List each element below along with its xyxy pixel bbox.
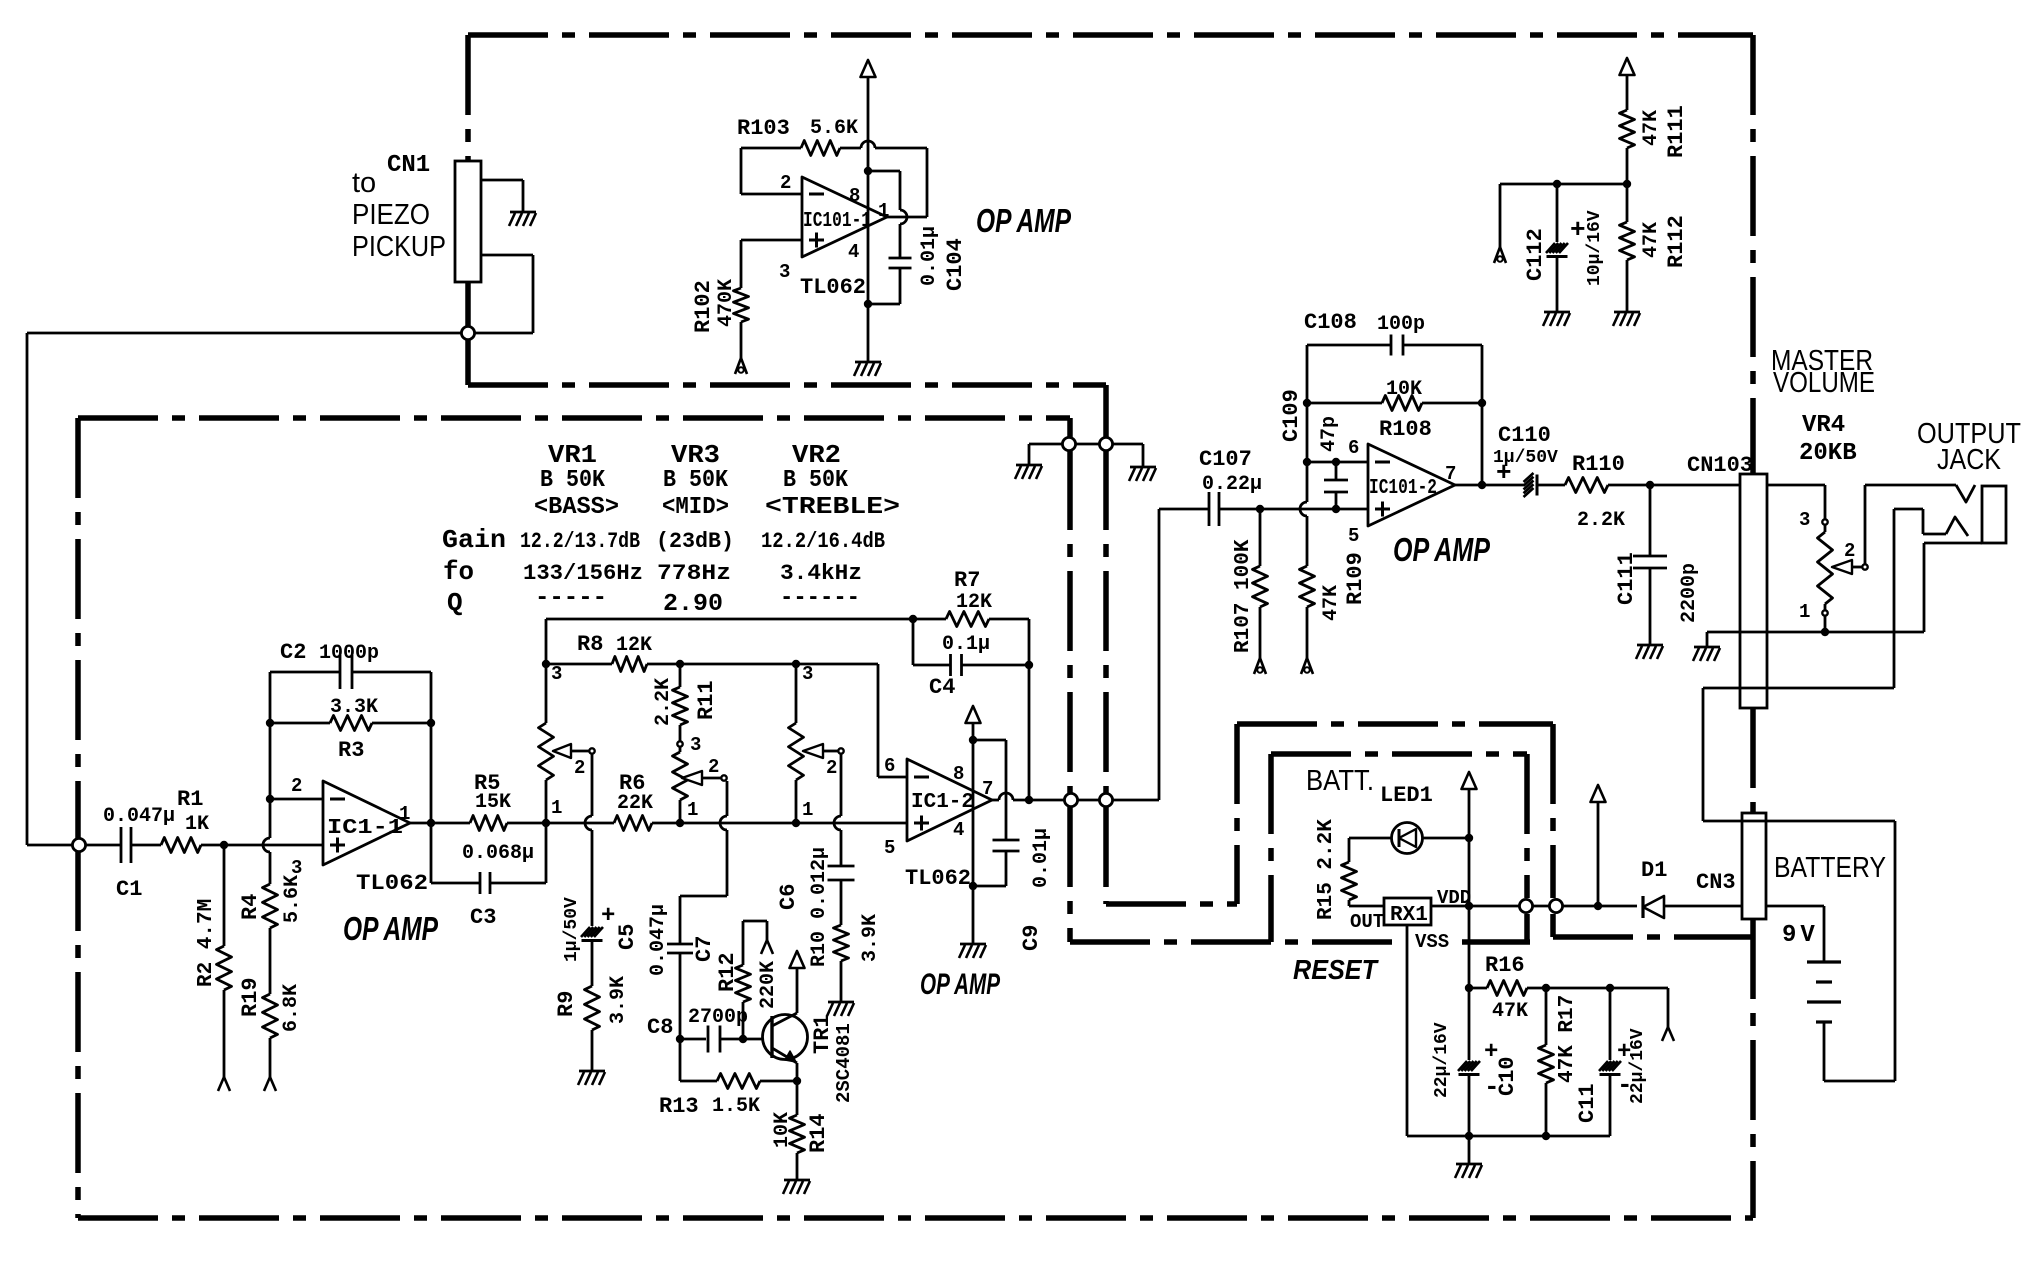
capacitor C104 branch (868, 170, 900, 173)
svg-text:1: 1 (551, 797, 562, 819)
capacitor C5 polarized (581, 927, 590, 937)
wire LED right (1422, 837, 1469, 840)
svg-text:OP AMP: OP AMP (1393, 531, 1491, 568)
svg-text:1000p: 1000p (319, 642, 379, 665)
svg-text:R7: R7 (954, 568, 980, 593)
resistor R9 (585, 986, 600, 1030)
svg-text:C10: C10 (1495, 1056, 1520, 1096)
resistor R11 (679, 664, 682, 687)
capacitor C112 polarized (1556, 184, 1559, 242)
wire down to IC1-2 pin6 (877, 664, 880, 777)
pot VR1 wiper (553, 744, 571, 758)
wire sleeve to ground rail (1924, 542, 1982, 545)
svg-text:6: 6 (1348, 437, 1359, 459)
wire supply rail IC101-1 (867, 77, 870, 362)
capacitor C107 (1159, 508, 1209, 511)
svg-text:12.2/13.7dB: 12.2/13.7dB (520, 529, 640, 554)
svg-text:0.1µ: 0.1µ (942, 633, 990, 656)
svg-text:12K: 12K (956, 591, 992, 614)
wire R7 right down (1028, 619, 1031, 800)
ground link right (1130, 466, 1156, 469)
jack sleeve (1982, 486, 2006, 543)
junction output (427, 819, 435, 827)
svg-text:7: 7 (982, 778, 993, 800)
dash-dot boundary right edge upper (1750, 35, 1756, 474)
wire ring to battery return (1922, 509, 1925, 534)
svg-text:TL062: TL062 (905, 866, 971, 891)
capacitor C8 (680, 1038, 706, 1041)
junction C104 bottom (864, 300, 872, 308)
wire feedback left rail (269, 672, 272, 799)
wire pin2 of IC1-1 (270, 798, 323, 801)
dash-dot boundary right edge mid (1750, 708, 1756, 813)
ground R9 (579, 1070, 605, 1073)
resistor R17 (1545, 988, 1548, 1045)
power arrow TR1 collector (790, 951, 805, 968)
svg-text:7: 7 (1445, 463, 1456, 485)
wire R4 branch from pin2 node (269, 799, 272, 838)
resistor R10 (834, 925, 849, 961)
svg-text:10K: 10K (771, 1112, 794, 1148)
emitter arrow TR1 (785, 1051, 796, 1062)
resistor R8 (612, 657, 647, 672)
op-amp IC1-2 (907, 759, 992, 841)
svg-text:R14: R14 (806, 1113, 831, 1153)
ground R10 (828, 1001, 854, 1004)
hop C6 line over rail (834, 816, 841, 830)
svg-text:R15 2.2K: R15 2.2K (1315, 819, 1338, 920)
arrow R19 bottom (264, 1077, 270, 1091)
svg-text:3: 3 (291, 857, 302, 879)
ground IC101-1 (855, 361, 881, 364)
svg-text:R3: R3 (338, 738, 364, 763)
svg-text:PIEZO: PIEZO (352, 199, 430, 231)
jack ring contact (1923, 533, 1946, 536)
wire ground stub (1706, 632, 1709, 647)
svg-text:3.4kHz: 3.4kHz (780, 561, 862, 586)
dash-dot boundary bottom y=942 (1070, 939, 1399, 945)
svg-text:0.01µ: 0.01µ (1030, 828, 1053, 888)
svg-text:IC1-2: IC1-2 (911, 791, 974, 814)
svg-text:R103: R103 (737, 116, 790, 141)
resistor R109 (1306, 462, 1309, 502)
svg-text:------: ------ (780, 585, 860, 612)
svg-text:B 50K: B 50K (663, 467, 729, 494)
junction R108 left (1303, 399, 1311, 407)
resistor R1 (161, 838, 201, 853)
capacitor C5 wire from wiper (591, 754, 594, 816)
svg-text:R12: R12 (715, 952, 740, 992)
svg-text:1: 1 (878, 200, 889, 222)
svg-text:C111: C111 (1614, 552, 1639, 605)
svg-text:2.2K: 2.2K (652, 678, 675, 726)
dash-dot boundary left edge upper (465, 35, 471, 161)
wire C108 right rail (1481, 345, 1484, 485)
resistor R103 feedback (740, 148, 743, 194)
svg-text:BATTERY: BATTERY (1774, 852, 1886, 884)
wire feedback upper to R7 (545, 619, 548, 664)
junction VR3 bottom (676, 819, 684, 827)
svg-text:3.3K: 3.3K (330, 696, 378, 719)
svg-text:R111: R111 (1664, 105, 1689, 158)
hop R103 over supply (861, 141, 875, 148)
svg-text:TL062: TL062 (800, 275, 866, 300)
pot VR2 element (795, 664, 798, 723)
svg-text:OUT: OUT (1350, 911, 1384, 933)
wire pin2 IC101-1 (741, 193, 802, 196)
capacitor C10 polarized (1468, 988, 1471, 1060)
svg-text:Q: Q (447, 588, 463, 618)
wire collector to supply arrow (796, 968, 799, 1013)
battery BT 9V (1807, 960, 1841, 963)
wire CN1 pin2 down (481, 254, 533, 257)
svg-text:OP AMP: OP AMP (920, 968, 1001, 1001)
svg-text:R108: R108 (1379, 417, 1432, 442)
hop C5 line over rail (585, 816, 592, 830)
wire output up to C107 (1158, 509, 1161, 800)
svg-text:22µ/16V: 22µ/16V (1628, 1028, 1648, 1104)
svg-text:<TREBLE>: <TREBLE> (765, 494, 900, 521)
op-amp IC1-1 (323, 781, 410, 865)
wire input net left vertical (26, 333, 29, 845)
svg-text:2SC4081: 2SC4081 (833, 1023, 855, 1103)
wire C2 top left (270, 671, 340, 674)
svg-text:+: + (1496, 458, 1512, 488)
wire feedback right rail (430, 672, 433, 823)
junction supply arrow (1594, 902, 1602, 910)
svg-text:<MID>: <MID> (662, 494, 729, 521)
capacitor C7 (667, 943, 693, 946)
svg-text:PICKUP: PICKUP (352, 231, 446, 263)
junction R5 right (542, 819, 550, 827)
svg-text:1: 1 (802, 799, 813, 821)
node input crossing boundary (72, 838, 85, 851)
svg-text:LED1: LED1 (1380, 783, 1433, 808)
svg-text:2.2K: 2.2K (1577, 509, 1625, 532)
dash-dot boundary vertical x=1553 (1550, 724, 1556, 898)
svg-text:CN3: CN3 (1696, 870, 1736, 895)
svg-text:R8: R8 (577, 632, 603, 657)
junction R7 left (909, 615, 917, 623)
svg-text:R10 0.012µ: R10 0.012µ (808, 847, 831, 967)
svg-text:47K: 47K (1640, 110, 1663, 146)
svg-text:R102: R102 (691, 280, 716, 333)
svg-text:VR4: VR4 (1802, 412, 1845, 439)
wire pin3 IC101-1 (741, 239, 802, 242)
svg-text:4: 4 (848, 241, 859, 263)
svg-text:133/156Hz: 133/156Hz (523, 561, 643, 586)
wire output IC101-1 (887, 216, 927, 219)
junction VR2 top (792, 660, 800, 668)
wire R1 to pin3 (224, 844, 323, 847)
svg-text:+: + (601, 903, 615, 930)
dash-dot RESET box right edge (1524, 754, 1530, 898)
node input crossing boundary (461, 326, 474, 339)
svg-text:5.6K: 5.6K (281, 875, 304, 923)
ground C112 (1544, 311, 1570, 314)
wire C108 left rail (1306, 345, 1309, 462)
svg-text:778Hz: 778Hz (657, 561, 731, 586)
wire supply rail IC1-2 (972, 723, 975, 944)
svg-text:R2 4.7M: R2 4.7M (195, 899, 218, 987)
resistor R15 (1348, 838, 1351, 862)
svg-text:C8: C8 (647, 1015, 673, 1040)
svg-text:TR1: TR1 (810, 1014, 835, 1054)
dash-dot boundary bottom edge of top block (468, 382, 1106, 388)
resistor R13 (760, 1080, 797, 1083)
svg-text:C109: C109 (1279, 389, 1304, 442)
svg-text:1: 1 (1799, 601, 1810, 623)
ground R112 (1614, 311, 1640, 314)
svg-text:fo: fo (443, 557, 474, 587)
svg-text:TL062: TL062 (356, 871, 428, 896)
junction VDD (1465, 902, 1473, 910)
svg-text:2: 2 (708, 756, 719, 778)
svg-text:BATT.: BATT. (1306, 765, 1374, 797)
IC RX1 reset (1384, 898, 1431, 925)
svg-text:2.90: 2.90 (663, 591, 723, 618)
wire CN3 to battery plus (1766, 905, 1824, 908)
junction C109 top (1332, 458, 1340, 466)
node link crossing boundary (1062, 437, 1075, 450)
dash-dot boundary vertical x=1106 (1103, 385, 1109, 438)
capacitor C3 branch (430, 823, 433, 883)
wire divider rail (1500, 183, 1627, 186)
transistor TR1 (763, 1015, 808, 1060)
resistor R19 (263, 994, 278, 1038)
junction pin2 (266, 795, 274, 803)
capacitor C2 (339, 655, 342, 689)
dash boundary left edge of main block (75, 418, 81, 839)
svg-text:C4: C4 (929, 675, 955, 700)
wire to C11 (1546, 987, 1610, 990)
capacitor C9 branch (973, 739, 1006, 742)
svg-text:1.5K: 1.5K (712, 1095, 760, 1118)
svg-text:2: 2 (291, 775, 302, 797)
pot VR4 element (1824, 525, 1827, 532)
svg-text:C108: C108 (1304, 310, 1357, 335)
junction VR1 top (542, 660, 550, 668)
dash-dot boundary jog y=904 (1106, 901, 1237, 907)
svg-text:10µ/16V: 10µ/16V (1585, 210, 1605, 286)
connector CN1 (455, 161, 481, 282)
svg-text:R9: R9 (554, 991, 579, 1017)
svg-text:C104: C104 (943, 238, 968, 291)
svg-text:JACK: JACK (1937, 444, 2002, 476)
svg-text:1K: 1K (185, 813, 209, 836)
resistor R102 (740, 240, 743, 288)
node VR4 pin1 (1822, 610, 1827, 615)
junction LED/arrow (1465, 834, 1473, 842)
svg-text:0.22µ: 0.22µ (1202, 473, 1262, 496)
wire pin6 (1307, 461, 1368, 464)
dash-dot boundary vertical x=1237 (1234, 724, 1240, 904)
svg-text:VOLUME: VOLUME (1773, 367, 1875, 399)
wire IC1-2 output (992, 799, 999, 802)
wire R12 hook (743, 920, 767, 923)
wire LED left (1349, 837, 1392, 840)
ground (510, 211, 536, 214)
svg-text:6: 6 (884, 755, 895, 777)
svg-text:1: 1 (687, 799, 698, 821)
junction C112 top (1553, 180, 1561, 188)
pot VR1 element (545, 664, 548, 723)
junction R107 top (1256, 505, 1264, 513)
wire battery minus loop (1823, 1022, 1826, 1081)
wire ground link (1029, 443, 1143, 446)
wire battery minus through CN3 (1742, 820, 1766, 823)
svg-text:10K: 10K (1386, 378, 1422, 401)
svg-text:IC1-1: IC1-1 (327, 817, 403, 840)
svg-text:(23dB): (23dB) (656, 529, 734, 554)
svg-text:0.068µ: 0.068µ (462, 842, 534, 865)
connector CN3 (1742, 813, 1766, 919)
svg-text:VSS: VSS (1415, 931, 1449, 953)
junction R17 bottom (1542, 1132, 1550, 1140)
wire bottom rail (1407, 1135, 1610, 1138)
svg-text:D1: D1 (1641, 858, 1667, 883)
svg-text:3: 3 (690, 734, 701, 756)
diode D1 (1641, 896, 1644, 918)
wire VDD vertical (1468, 789, 1471, 988)
svg-text:3: 3 (551, 663, 562, 685)
junction R108 right (1478, 399, 1486, 407)
power arrow R111 (1620, 58, 1635, 75)
hop C7 line over rail (720, 816, 727, 830)
svg-text:12.2/16.4dB: 12.2/16.4dB (761, 529, 885, 554)
capacitor C109 (1335, 462, 1338, 480)
junction R8 right / R11 top (676, 660, 684, 668)
wire output to C110 (1455, 484, 1524, 487)
svg-text:220K: 220K (757, 961, 780, 1009)
arrow R2 bottom (218, 1077, 224, 1091)
svg-text:CN1: CN1 (387, 152, 430, 179)
svg-text:0.047µ: 0.047µ (103, 805, 175, 828)
resistor R7 (913, 618, 946, 621)
wire R103 right down to output (926, 148, 929, 217)
svg-text:CN103: CN103 (1687, 453, 1753, 478)
pot VR2 wiper (803, 744, 823, 758)
node output crossing boundary (1064, 793, 1077, 806)
svg-text:1µ/50V: 1µ/50V (562, 897, 582, 962)
reference arrow supply (1494, 247, 1500, 263)
svg-text:C1: C1 (116, 877, 142, 902)
power arrow reset (1462, 772, 1477, 789)
junction R3 right (427, 719, 435, 727)
wire OUT (1349, 905, 1384, 908)
junction C11 top (1606, 984, 1614, 992)
wire rail to VR2 (680, 822, 796, 825)
svg-text:R4: R4 (238, 894, 263, 920)
svg-text:C9: C9 (1019, 925, 1044, 951)
svg-text:22K: 22K (617, 792, 653, 815)
svg-text:3.9K: 3.9K (607, 976, 630, 1024)
wire stub arrow (1610, 987, 1668, 990)
wire mid rail to R6 (546, 822, 614, 825)
pot VR4 wiper (1832, 560, 1852, 574)
junction R16 left (1465, 984, 1473, 992)
dash-dot boundary right edge lower (1750, 919, 1756, 1218)
svg-text:R107 100K: R107 100K (1232, 539, 1255, 653)
svg-text:C7: C7 (692, 936, 717, 962)
junction divider (1623, 180, 1631, 188)
wire base (743, 1038, 764, 1041)
junction C10 bottom (1465, 1132, 1473, 1140)
svg-text:<BASS>: <BASS> (534, 494, 619, 521)
resistor R112 (1620, 222, 1635, 260)
wire VR3 wiper down to C7 (726, 781, 729, 816)
dash-dot boundary left edge lower (465, 282, 471, 327)
svg-text:R11: R11 (694, 680, 719, 720)
node VR4 pin3 (1822, 519, 1827, 524)
pot VR3 wiper (682, 771, 702, 785)
svg-text:8: 8 (849, 185, 860, 207)
capacitor C111 (1649, 485, 1652, 556)
wire input to C1 (27, 844, 121, 847)
LED LED1 (1392, 823, 1423, 854)
svg-text:3: 3 (779, 261, 790, 283)
svg-text:R16: R16 (1485, 953, 1525, 978)
op-amp IC101-2 (1368, 444, 1455, 526)
svg-text:3: 3 (802, 663, 813, 685)
wire IC1-1 output (410, 822, 470, 825)
hop C104 over output (900, 210, 907, 224)
svg-text:4: 4 (953, 819, 964, 841)
svg-text:B 50K: B 50K (783, 467, 849, 494)
svg-text:C112: C112 (1523, 228, 1548, 281)
junction C4 right (1025, 661, 1033, 669)
ground jack (1694, 646, 1720, 649)
svg-text:0.047µ: 0.047µ (647, 904, 670, 976)
reference arrow R109 (1301, 658, 1307, 674)
svg-text:12K: 12K (616, 634, 652, 657)
wire ground rail y632 (1707, 631, 1924, 634)
junction C8/R12/base (739, 1035, 747, 1043)
svg-text:to: to (352, 167, 376, 199)
svg-text:C2: C2 (280, 640, 306, 665)
junction output/R7C4 (1025, 796, 1033, 804)
connector CN103 (1740, 474, 1767, 708)
junction VR2 bottom (792, 819, 800, 827)
svg-text:R109: R109 (1343, 552, 1368, 605)
svg-text:9V: 9V (1782, 922, 1819, 949)
svg-text:5.6K: 5.6K (810, 117, 858, 140)
wire emitter down (796, 1063, 799, 1081)
junction C109 bottom (1332, 505, 1340, 513)
wire ; dash-dot board boundary top edge (468, 32, 1753, 38)
svg-text:R110: R110 (1572, 452, 1625, 477)
svg-text:C11: C11 (1575, 1083, 1600, 1123)
capacitor C4 branch (912, 619, 915, 665)
capacitor C1 (120, 827, 123, 863)
svg-text:20KB: 20KB (1799, 440, 1857, 467)
hop R4 line over input rail (263, 838, 270, 852)
svg-text:VR2: VR2 (792, 440, 841, 470)
resistor R110 (1565, 478, 1608, 493)
resistor R14 (796, 1081, 799, 1115)
capacitor C6 (828, 865, 855, 868)
ground C10 (1456, 1163, 1482, 1166)
wire CN103 to VR4 top (1767, 484, 1825, 487)
svg-text:47p: 47p (1318, 416, 1341, 452)
capacitor C108 feedback (1307, 344, 1391, 347)
power arrow IC101-1 (861, 60, 876, 77)
junction emitter/R13/R14 (793, 1077, 801, 1085)
wire VSS down (1406, 925, 1409, 1136)
svg-text:VDD: VDD (1437, 887, 1471, 909)
reference arrow R107 (1254, 658, 1260, 674)
junction C9 top (969, 736, 977, 744)
